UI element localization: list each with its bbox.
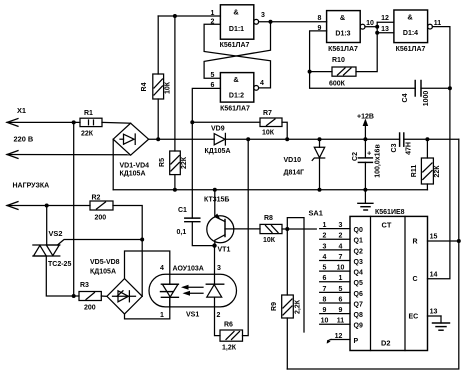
svg-text:5: 5	[211, 72, 215, 79]
svg-text:Q5: Q5	[354, 280, 363, 287]
svg-text:R10: R10	[332, 57, 345, 64]
pin 1 label	[211, 10, 215, 17]
svg-text:10: 10	[321, 318, 329, 325]
svg-text:100,0х16в: 100,0х16в	[375, 144, 382, 178]
resistor R2 200	[90, 195, 113, 222]
capacitor C4 1000	[402, 81, 452, 107]
svg-text:10К: 10К	[262, 130, 275, 137]
wire VS2 bottom to R3 node	[46, 256, 75, 298]
wire R2 right down to gate node	[113, 206, 142, 240]
resistor R7 10K	[192, 110, 289, 141]
wire vertical from L1 node down to R3 node	[73, 122, 75, 296]
wire reset vertical (C3/R11 node to R pin and bottom wire)	[287, 139, 461, 369]
svg-text:220 В: 220 В	[14, 135, 34, 144]
svg-text:КД105А: КД105А	[90, 269, 116, 276]
svg-text:VS2: VS2	[49, 229, 63, 238]
counter output label Q5	[354, 280, 363, 287]
svg-text:3: 3	[339, 222, 343, 229]
svg-text:CT: CT	[382, 221, 392, 230]
pin 6 label	[211, 82, 215, 89]
counter output label Q0	[354, 227, 363, 234]
svg-text:D1:1: D1:1	[229, 26, 244, 33]
svg-text:P: P	[354, 338, 359, 345]
svg-text:R8: R8	[264, 215, 273, 222]
svg-text:&: &	[233, 8, 239, 17]
capacitor C1 0,1	[177, 207, 200, 236]
svg-text:VD5-VD8: VD5-VD8	[90, 259, 120, 266]
svg-text:D1:4: D1:4	[403, 30, 418, 37]
opto pin 3 label	[217, 265, 221, 272]
svg-text:VT1: VT1	[218, 247, 231, 254]
svg-text:4: 4	[323, 254, 327, 261]
counter output label Q6	[354, 291, 363, 298]
svg-text:Q0: Q0	[354, 227, 363, 234]
0V rail (bottom common rail)	[113, 189, 427, 191]
svg-text:1: 1	[323, 222, 327, 229]
220 V label	[14, 135, 34, 144]
svg-text:К561ЛА7: К561ЛА7	[220, 106, 250, 113]
svg-text:12: 12	[335, 333, 343, 340]
svg-text:1: 1	[160, 312, 164, 319]
svg-text:EC: EC	[409, 314, 419, 321]
resistor R3 200	[74, 282, 107, 312]
wire L2 (mains line 2) with arrow	[7, 151, 131, 159]
SA1 contact row 8 / pin 6	[320, 296, 350, 303]
NAND gate D1:4 K561LA7	[394, 10, 433, 53]
resistor R10 600K	[310, 33, 378, 88]
svg-text:C3: C3	[391, 143, 398, 152]
opto light arrows	[181, 285, 203, 296]
wire L1 (mains line 1) with arrow	[7, 119, 80, 127]
svg-text:22К: 22К	[434, 165, 441, 178]
ground symbol at EC	[433, 316, 450, 330]
svg-text:R3: R3	[80, 282, 89, 289]
wire pin 1 input	[158, 14, 220, 18]
wire L3 (load) with arrow	[7, 202, 90, 210]
optocoupler AOU103A body	[149, 266, 237, 319]
svg-text:4: 4	[260, 80, 264, 87]
wire +12V rail (VD9 cathode to C3)	[225, 137, 399, 141]
svg-text:КТ315Б: КТ315Б	[204, 197, 229, 204]
wire VT1 base to R8	[234, 228, 260, 230]
resistor R6 1,2K	[220, 322, 243, 352]
svg-text:5: 5	[339, 286, 343, 293]
wire pin 9 down to C4	[308, 31, 416, 88]
svg-text:5: 5	[323, 265, 327, 272]
resistor R9 2,2K	[271, 229, 302, 369]
counter output label Q3	[354, 259, 363, 266]
svg-text:14: 14	[430, 272, 438, 279]
node on L1 wire (dot x=73.7)	[72, 120, 76, 124]
load label NAGRUZKA	[13, 183, 50, 190]
svg-text:Q6: Q6	[354, 291, 363, 298]
svg-text:R5: R5	[159, 158, 166, 167]
svg-text:Q2: Q2	[354, 248, 363, 255]
opto pin 4 label	[160, 265, 164, 272]
svg-text:+12В: +12В	[357, 114, 374, 121]
svg-text:D1:2: D1:2	[229, 93, 244, 100]
svg-text:R9: R9	[271, 302, 278, 311]
svg-text:Q1: Q1	[354, 238, 363, 245]
pin 9 label	[318, 25, 322, 32]
svg-text:C: C	[413, 276, 418, 283]
svg-text:12: 12	[381, 15, 389, 22]
SA1 contact row 10 / pin 11	[320, 318, 350, 325]
svg-text:4: 4	[339, 243, 343, 250]
svg-text:10К: 10К	[165, 81, 172, 94]
svg-text:3: 3	[323, 243, 327, 250]
svg-text:D1:3: D1:3	[335, 31, 350, 38]
ground symbol at C2	[358, 190, 373, 210]
resistor R1 22K	[80, 110, 102, 138]
pin 10 label	[366, 20, 374, 27]
svg-text:13: 13	[381, 26, 389, 33]
wire node A down to C1 (crossing rails)	[191, 122, 193, 218]
svg-text:7: 7	[323, 286, 327, 293]
wire SA1 common bus	[287, 218, 304, 332]
svg-text:R11: R11	[411, 165, 418, 178]
zener VD10 D814G	[284, 139, 325, 191]
counter output label Q2	[354, 248, 363, 255]
svg-text:VD10: VD10	[284, 157, 302, 164]
diode VD9 KD105A	[205, 126, 231, 156]
wire bridge2 DC bottom to opto pin 1	[125, 297, 170, 319]
svg-text:2: 2	[217, 312, 221, 319]
pin 3 label	[261, 12, 265, 19]
wire R1 to bridge top	[102, 121, 131, 124]
wire bridge2 DC top to opto pin 4	[125, 251, 170, 284]
pin 12 label	[381, 15, 389, 22]
svg-text:Q9: Q9	[354, 323, 363, 330]
wire C3 to reset vertical	[404, 137, 459, 141]
svg-text:200: 200	[84, 305, 96, 312]
svg-text:3: 3	[261, 12, 265, 19]
svg-text:К561ИЕ8: К561ИЕ8	[375, 209, 405, 216]
wire cross-coupling pin3 to pin5	[204, 22, 270, 79]
svg-text:КД105А: КД105А	[120, 171, 146, 178]
svg-text:Q3: Q3	[354, 259, 363, 266]
transistor VT1 KT315B	[204, 188, 234, 254]
SA1 wiper row pin 12 (P input)	[327, 333, 350, 344]
counter output label Q9	[354, 323, 363, 330]
svg-text:КД105А: КД105А	[205, 148, 231, 155]
resistor R4 10K	[141, 16, 172, 141]
wire VS2 gate diagonal to gate wire	[58, 238, 145, 246]
svg-text:&: &	[407, 13, 413, 22]
svg-text:10: 10	[337, 265, 345, 272]
svg-text:SA1: SA1	[309, 209, 323, 218]
wire C1 bottom to VT1 emitter node	[192, 222, 216, 248]
svg-text:VD1-VD4: VD1-VD4	[120, 163, 150, 170]
SA1 contact row 4 / pin 7	[320, 254, 350, 261]
svg-text:Х1: Х1	[17, 106, 26, 115]
svg-text:Q8: Q8	[354, 312, 363, 319]
svg-text:К561ЛА7: К561ЛА7	[396, 46, 426, 53]
svg-text:1: 1	[339, 275, 343, 282]
svg-text:7: 7	[339, 254, 343, 261]
wire gate node down to bridge2 right corner	[141, 240, 143, 297]
svg-text:АОУ103А: АОУ103А	[173, 266, 204, 273]
svg-text:НАГРУЗКА: НАГРУЗКА	[13, 183, 50, 190]
svg-text:2: 2	[323, 233, 327, 240]
wire D1:3 output to pins 12,13	[365, 22, 394, 34]
+12V arrow	[357, 114, 374, 140]
opto pin 1 label	[160, 312, 164, 319]
counter input label P	[354, 338, 359, 345]
svg-text:Q7: Q7	[354, 301, 363, 308]
bridge rectifier VD1-VD4 KD105A	[113, 123, 149, 177]
svg-text:C2: C2	[352, 152, 359, 161]
svg-text:VD9: VD9	[211, 126, 225, 133]
svg-text:C4: C4	[402, 93, 409, 102]
SA1 contact row 3 / pin 4	[320, 243, 350, 250]
SA1 contact row 7 / pin 5	[320, 286, 350, 293]
svg-text:R2: R2	[92, 195, 101, 202]
svg-text:9: 9	[323, 307, 327, 314]
svg-text:9: 9	[339, 307, 343, 314]
NAND gate D1:2 K561LA7	[220, 73, 259, 113]
SA1 contact row 5 / pin 10	[320, 265, 350, 272]
pin 13 label	[381, 26, 389, 33]
svg-text:+: +	[367, 149, 372, 158]
counter output label Q1	[354, 238, 363, 245]
svg-text:R1: R1	[84, 110, 93, 117]
svg-text:R7: R7	[263, 110, 272, 117]
opto LED (pins 3-2)	[206, 246, 223, 336]
pin 2 label	[211, 19, 215, 26]
resistor R5 22K	[159, 16, 188, 192]
svg-text:К561ЛА7: К561ЛА7	[328, 46, 358, 53]
svg-text:200: 200	[95, 215, 107, 222]
wire R8 to SA1 common node	[282, 227, 316, 231]
svg-text:22К: 22К	[81, 131, 94, 138]
svg-text:8: 8	[318, 15, 322, 22]
wire pin 6 down to node A	[190, 88, 220, 124]
counter D2 K561IE8 box	[350, 209, 428, 351]
SA1 contact row 9 / pin 9	[320, 307, 350, 314]
opto pin 2 label	[217, 312, 221, 319]
svg-text:4: 4	[160, 265, 164, 272]
pin 11 label	[434, 20, 442, 27]
NAND gate D1:3 K561LA7	[327, 11, 365, 53]
svg-text:13: 13	[430, 309, 438, 316]
counter output label Q8	[354, 312, 363, 319]
svg-text:2,2К: 2,2К	[295, 299, 302, 314]
counter output label Q4	[354, 270, 363, 277]
svg-text:15: 15	[430, 234, 438, 241]
counter EC pin 13	[409, 309, 442, 321]
capacitor C3 47n	[391, 133, 413, 155]
svg-text:Q4: Q4	[354, 270, 363, 277]
NAND gate D1:1 K561LA7	[220, 5, 259, 49]
opto photothyristor (pins 4-1)	[161, 284, 179, 307]
SA1 contact row 1 / pin 3	[320, 222, 350, 229]
svg-text:0,1: 0,1	[177, 229, 187, 236]
svg-text:R: R	[413, 239, 418, 246]
wire R6 right up to +12V rail	[243, 139, 249, 335]
resistor R11 22K	[411, 139, 441, 189]
svg-text:1000: 1000	[423, 91, 430, 107]
svg-text:6: 6	[339, 296, 343, 303]
wire VS2 anode (load to triac)	[46, 206, 48, 246]
svg-text:10: 10	[366, 20, 374, 27]
svg-text:C1: C1	[178, 207, 187, 214]
counter C pin 14	[413, 272, 438, 284]
resistor R8 10K	[260, 215, 282, 244]
SA1 contact row 6 / pin 1	[320, 275, 350, 282]
svg-text:47Н: 47Н	[406, 142, 413, 155]
svg-text:VS1: VS1	[186, 312, 199, 319]
svg-text:Д814Г: Д814Г	[284, 170, 305, 177]
wire pin 11 output down to counter C input	[428, 27, 450, 279]
svg-text:11: 11	[337, 318, 345, 325]
terminal X1 label	[17, 106, 26, 115]
pin 8 label	[318, 15, 322, 22]
svg-text:R4: R4	[141, 82, 148, 91]
svg-text:&: &	[233, 75, 239, 84]
svg-text:11: 11	[434, 20, 442, 27]
svg-text:6: 6	[323, 275, 327, 282]
svg-text:3: 3	[217, 265, 221, 272]
counter output label Q7	[354, 301, 363, 308]
wire pin 3 output to pin 8	[259, 20, 327, 24]
pin 5 label	[211, 72, 215, 79]
counter R pin 15	[413, 234, 459, 246]
svg-text:8: 8	[323, 296, 327, 303]
capacitor C2 100,0x16v	[352, 139, 382, 191]
svg-text:22К: 22К	[181, 156, 188, 169]
svg-text:10К: 10К	[263, 237, 276, 244]
svg-text:&: &	[340, 13, 346, 22]
svg-text:R6: R6	[224, 322, 233, 329]
svg-text:1,2К: 1,2К	[222, 345, 237, 352]
SA1 contact row 2 / pin 2	[320, 233, 350, 240]
bridge rectifier VD5-VD8 KD105A	[90, 259, 142, 314]
svg-text:ТС2-25: ТС2-25	[48, 261, 71, 268]
triac VS2 TC2-25	[33, 229, 72, 268]
svg-text:К561ЛА7: К561ЛА7	[220, 42, 250, 49]
wire bridge left corner down to 0V rail	[112, 139, 114, 190]
svg-text:600К: 600К	[329, 81, 346, 88]
svg-text:D2: D2	[381, 339, 390, 348]
rotary switch SA1 label	[309, 209, 323, 218]
wire pin 2 to cross-coupling	[204, 24, 270, 88]
svg-text:2: 2	[339, 233, 343, 240]
pin 4 label	[260, 80, 264, 87]
wire DC+ from bridge1 to VD9	[149, 138, 215, 140]
